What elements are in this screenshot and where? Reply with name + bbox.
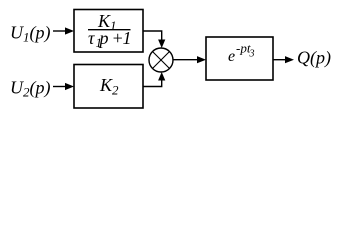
svg-text:Q(p): Q(p) [297,48,331,69]
svg-text:e: e [228,48,235,65]
svg-text:3: 3 [249,49,255,60]
svg-text:U1(p): U1(p) [10,23,51,45]
svg-text:U2(p): U2(p) [10,78,51,100]
